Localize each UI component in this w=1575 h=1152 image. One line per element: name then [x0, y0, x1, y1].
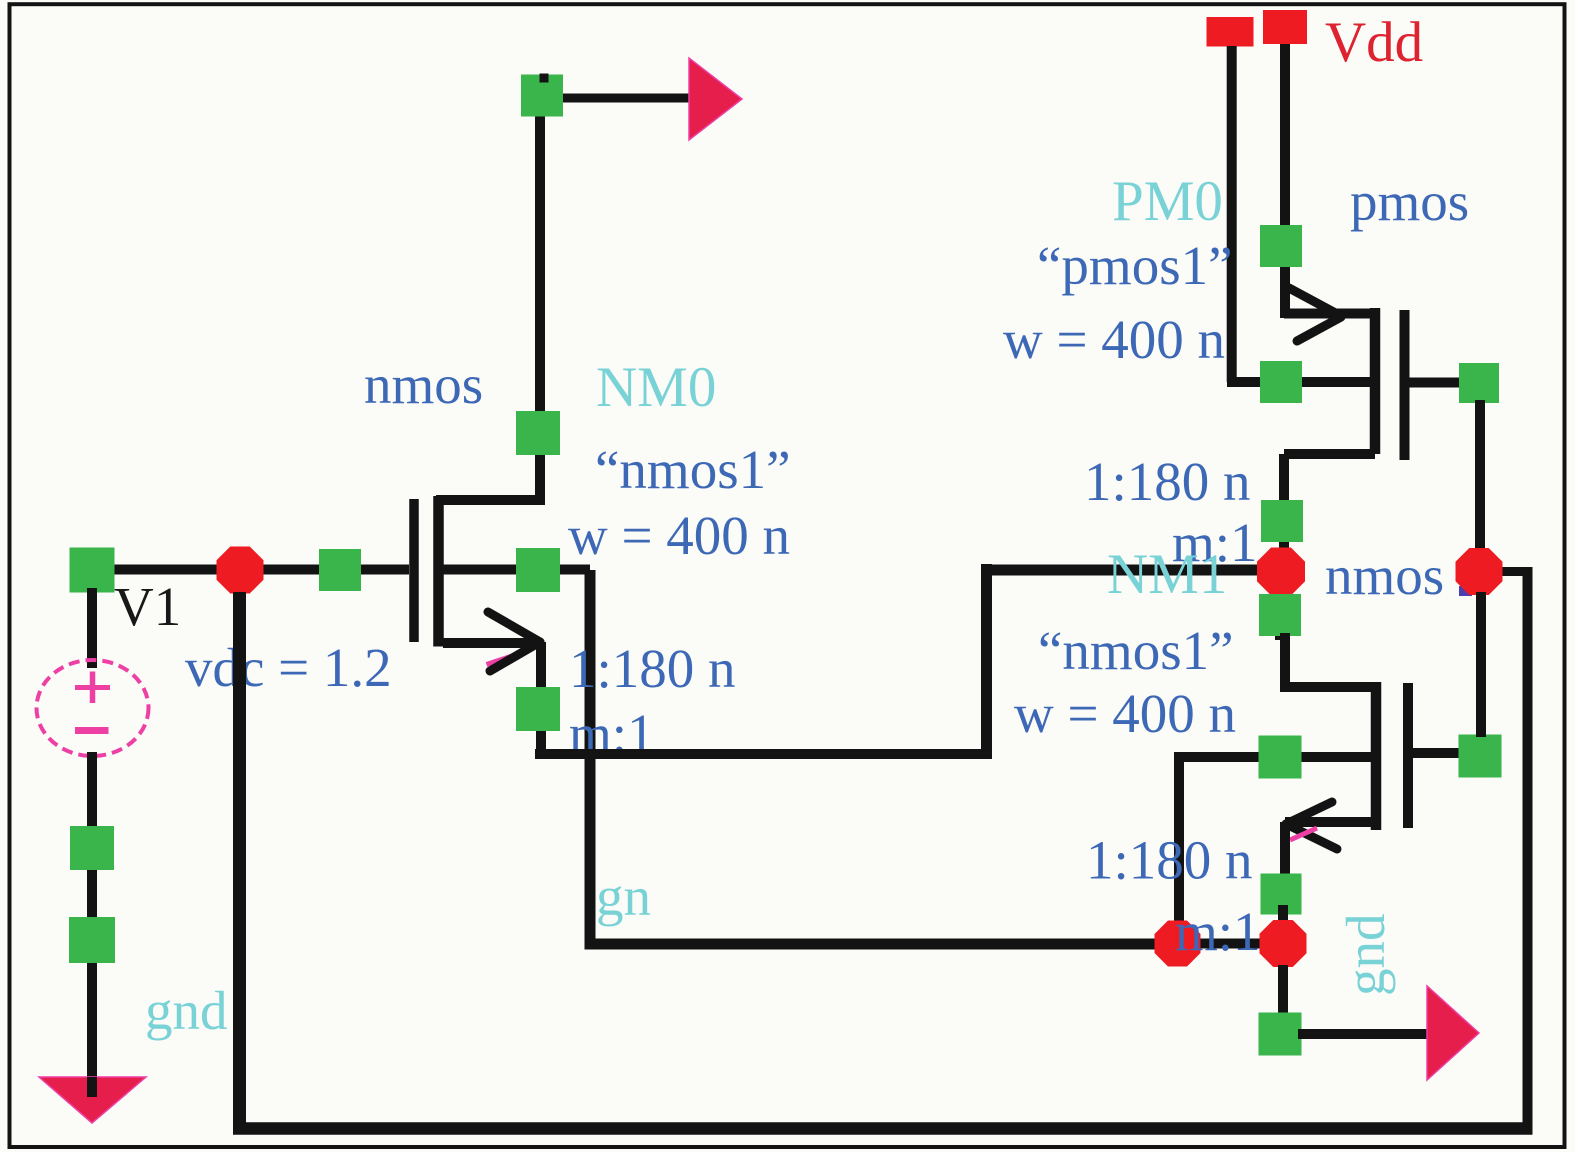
wire NM1 source down — [1280, 822, 1290, 900]
wire PM0 gate leg — [1404, 378, 1460, 388]
node gn junction — [1155, 921, 1201, 967]
wire NM0 bulk down — [585, 570, 596, 950]
pin square V1 plus — [70, 548, 115, 593]
pin square gnd symbol — [69, 917, 115, 963]
node drain junction — [1257, 548, 1305, 596]
pin square NM1 bulk — [1259, 736, 1302, 779]
pin square PM0 bulk — [1260, 361, 1302, 403]
node gate junction — [1456, 548, 1503, 595]
transistor NM0 channel bar — [433, 496, 444, 647]
wire NM1 drain leg — [1285, 682, 1372, 692]
pin square NM0 drain — [516, 411, 560, 455]
wire NM0 drain vertical — [535, 96, 545, 502]
wire PM0 source leg — [1284, 309, 1373, 319]
svg-text:PM0: PM0 — [1112, 170, 1223, 233]
wire PM0 bulk horizontal — [1227, 377, 1372, 387]
port out triangle — [689, 58, 742, 140]
NM1 arrow pink mark — [1290, 828, 1317, 840]
svg-text:gnd: gnd — [1335, 914, 1396, 997]
transistor PM0 source arrow — [1289, 288, 1341, 316]
svg-text:nmos: nmos — [1325, 545, 1444, 606]
wire PM0 drain leg — [1284, 449, 1375, 459]
wire stub into ground triangle — [87, 1077, 97, 1097]
pin square out — [521, 75, 563, 117]
wire node to gnd pin — [1278, 965, 1288, 1020]
transistor NM0 gate bar — [409, 499, 419, 642]
purple mark under gate node — [1459, 586, 1472, 596]
power Vdd square 2 — [1263, 10, 1307, 44]
svg-text:w = 400 n: w = 400 n — [1003, 309, 1225, 370]
transistor PM0 channel bar — [1370, 308, 1381, 454]
pin square PM0 source — [1260, 225, 1302, 267]
wire NM0 drain elbow — [436, 495, 545, 505]
wire V1 top lead — [87, 588, 97, 668]
svg-text:NM0: NM0 — [596, 356, 716, 419]
svg-text:1:180 n: 1:180 n — [1086, 830, 1253, 891]
wire out horizontal — [561, 94, 692, 103]
wire PM0 bulk vertical — [1227, 46, 1237, 382]
wire gn run — [585, 939, 1161, 950]
wire mid vertical — [981, 564, 992, 759]
wire PM0 drain down — [1279, 454, 1289, 572]
pin square NM0 gate — [319, 549, 361, 591]
wire PM0 gate down — [1475, 400, 1485, 572]
pin square NM0 bulk — [516, 548, 560, 592]
node vin junction — [217, 547, 264, 594]
pin square V1 minus — [70, 826, 114, 870]
wire between ground nodes — [1177, 939, 1283, 949]
wire right rail — [1523, 567, 1533, 1134]
wire NM1 drain vertical — [1280, 633, 1290, 692]
wire NM0 source leg — [443, 638, 540, 648]
wire PM0 source vertical — [1280, 44, 1290, 318]
svg-text:“pmos1”: “pmos1” — [1037, 235, 1233, 296]
pin square NM0 source — [516, 687, 560, 731]
wire NM1 gate up — [1476, 592, 1486, 737]
wire gnd port horizontal — [1298, 1029, 1430, 1039]
ground symbol triangle — [39, 1077, 146, 1123]
pin square NM1 drain — [1259, 594, 1301, 636]
svg-text:w = 400 n: w = 400 n — [1014, 683, 1236, 744]
wire NM0 source run — [535, 749, 992, 759]
vsource V1 circle — [37, 660, 149, 756]
wire NM1 gate leg — [1408, 748, 1459, 758]
transistor NM1 source arrow — [1286, 802, 1332, 824]
svg-text:V1: V1 — [114, 576, 181, 637]
wire NM1 bulk horizontal — [1174, 752, 1372, 762]
svg-text:vdc = 1.2: vdc = 1.2 — [185, 637, 392, 698]
wire rail to gate node — [1499, 567, 1533, 576]
pin square PM0 gate — [1459, 363, 1499, 403]
pin square NM1 source — [1261, 874, 1302, 915]
wire vin rail down — [233, 592, 246, 1134]
wire output stub tick — [540, 74, 549, 83]
wire NM1 source leg — [1285, 817, 1376, 827]
wire NM1 bulk down — [1174, 757, 1184, 949]
wire NM0 bulk horizontal — [443, 565, 590, 575]
svg-text:1:180 n: 1:180 n — [1084, 451, 1251, 512]
svg-text:NM1: NM1 — [1107, 543, 1227, 606]
wire gate row — [92, 565, 409, 575]
pin square PM0 drain — [1261, 500, 1303, 542]
transistor NM1 channel bar — [1371, 682, 1382, 830]
svg-text:gnd: gnd — [145, 980, 228, 1041]
svg-text:pmos: pmos — [1350, 171, 1469, 232]
svg-text:w = 400 n: w = 400 n — [568, 505, 790, 566]
wire NM1 drain down — [1275, 594, 1285, 640]
wire bottom rail — [233, 1122, 1533, 1135]
node NM1 source junction — [1260, 920, 1307, 967]
port gnd triangle — [1427, 986, 1479, 1080]
wire V1 bottom lead — [87, 752, 97, 1097]
transistor NM0 source arrow — [488, 612, 540, 642]
svg-text:m:1: m:1 — [1175, 901, 1261, 962]
NM0 arrow pink mark — [487, 654, 519, 665]
svg-text:“nmos1”: “nmos1” — [595, 439, 791, 500]
svg-text:Vdd: Vdd — [1325, 11, 1423, 74]
wire NM0 source down — [536, 642, 546, 758]
wire NM1 source to node — [1278, 905, 1288, 944]
vsource minus sign — [75, 727, 109, 734]
transistor PM0 gate bar — [1400, 310, 1410, 460]
svg-text:1:180 n: 1:180 n — [569, 638, 736, 699]
svg-text:“nmos1”: “nmos1” — [1038, 620, 1234, 681]
transistor NM1 gate bar — [1403, 683, 1413, 828]
svg-text:nmos: nmos — [364, 354, 483, 415]
power Vdd square 1 — [1207, 17, 1254, 47]
svg-text:gn: gn — [596, 866, 651, 927]
vsource plus sign — [75, 685, 110, 690]
wire mid horizontal to NM1 drain — [981, 565, 1262, 576]
pin square NM1 gate — [1459, 735, 1502, 778]
pin square gnd port — [1259, 1013, 1302, 1056]
